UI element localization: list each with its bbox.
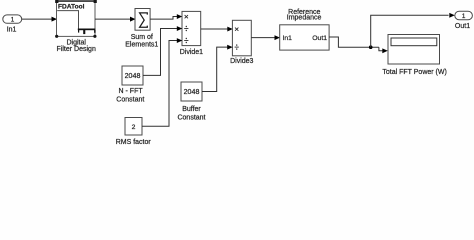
svg-text:2048: 2048: [184, 88, 200, 96]
outport Out1: [455, 11, 473, 30]
wire In1 to FDATool: [22, 17, 57, 22]
svg-text:FDATool: FDATool: [58, 3, 85, 10]
wire junction to Display: [379, 47, 388, 53]
svg-text:Sum of: Sum of: [131, 34, 153, 41]
svg-text:2: 2: [132, 124, 136, 131]
svg-text:Total FFT Power (W): Total FFT Power (W): [382, 69, 446, 76]
svg-text:1: 1: [462, 13, 466, 20]
block Divide1: [182, 11, 201, 45]
wire N-FFT Constant to Divide1 input 2: [143, 26, 182, 75]
svg-text:Constant: Constant: [116, 97, 144, 104]
wire Divide3 to Reference Impedance: [251, 35, 280, 40]
block N-FFT Constant 2048: [122, 66, 143, 85]
svg-text:Elements1: Elements1: [125, 42, 158, 49]
svg-text:2048: 2048: [125, 72, 141, 80]
svg-text:Divide3: Divide3: [230, 58, 253, 65]
inport In1: [3, 15, 22, 34]
svg-text:Constant: Constant: [177, 114, 205, 121]
wire Divide1 to Divide3 input 1: [201, 27, 233, 32]
label N-FFT Constant: [116, 88, 144, 104]
svg-text:Out1: Out1: [312, 35, 327, 42]
label Buffer Constant: [177, 106, 205, 122]
block RMS factor 2: [125, 118, 142, 136]
label Sum of Elements1: [125, 34, 158, 49]
label Reference Impedance: [287, 9, 322, 21]
wire FDATool to Sum: [95, 17, 136, 22]
svg-text:1: 1: [11, 17, 15, 24]
label Digital Filter Design: [57, 40, 96, 54]
block Display Total FFT Power (W): [388, 35, 440, 65]
wire Reference Impedance to junction: [329, 37, 379, 47]
block Divide3: [232, 20, 251, 56]
svg-text:In1: In1: [283, 35, 293, 42]
svg-text:RMS factor: RMS factor: [116, 139, 152, 146]
wire RMS factor to Divide1 input 3: [142, 38, 182, 126]
svg-text:Buffer: Buffer: [182, 106, 201, 113]
svg-text:Divide1: Divide1: [180, 49, 203, 56]
block Reference Impedance: [280, 25, 329, 50]
svg-text:Impedance: Impedance: [287, 14, 322, 21]
svg-text:N - FFT: N - FFT: [119, 88, 144, 95]
node junction: [369, 45, 373, 49]
wire junction to Out1: [371, 13, 455, 47]
block Sum of Elements1: [135, 9, 150, 31]
svg-text:In1: In1: [7, 27, 17, 34]
svg-text:Out1: Out1: [455, 23, 470, 30]
wire Buffer Constant to Divide3 input 2: [202, 45, 233, 92]
block U: Digital Filter Design (FDATool), selected: [55, 0, 97, 38]
block Buffer Constant 2048: [181, 82, 202, 101]
wire Sum to Divide1 input 1: [150, 14, 182, 19]
svg-text:Filter Design: Filter Design: [57, 46, 96, 53]
